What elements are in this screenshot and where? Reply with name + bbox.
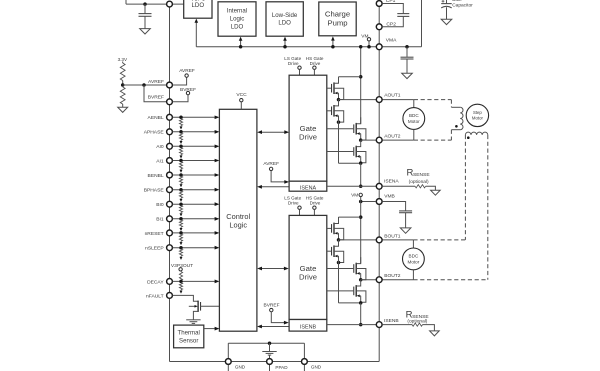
- junction: [283, 45, 287, 49]
- wire ISENB to control: [261, 326, 288, 328]
- wire supply arrow: [240, 40, 242, 47]
- pin BOUT2: [376, 277, 382, 283]
- svg-text:AI0: AI0: [156, 144, 164, 150]
- wire dashed AOUT1 to winding A: [414, 99, 452, 101]
- wire sense B: [360, 303, 362, 325]
- pulldown resistor APHASE: [179, 133, 182, 140]
- pulldown resistor BENBL: [179, 176, 182, 183]
- junction node BOUT2: [359, 278, 363, 282]
- wire LDO supply: [195, 22, 197, 47]
- resistor RSENSE A: [415, 185, 426, 188]
- winding A (stepper): [451, 106, 460, 108]
- pin BPHASE: [167, 187, 173, 193]
- wire input: [173, 232, 215, 234]
- svg-text:AVREF: AVREF: [179, 68, 195, 74]
- svg-text:BDC: BDC: [409, 113, 419, 118]
- svg-text:Internal: Internal: [227, 8, 247, 15]
- pin GND 2: [302, 359, 308, 365]
- svg-text:AVREF: AVREF: [148, 79, 164, 85]
- svg-text:VM: VM: [351, 192, 358, 198]
- motor BDC A: [413, 100, 415, 108]
- junction: [179, 202, 183, 206]
- svg-text:LDO: LDO: [192, 2, 205, 9]
- pulldown resistor AI0: [179, 148, 182, 155]
- junction: [359, 161, 363, 165]
- wire BVREF internal: [173, 95, 188, 102]
- block Control Logic: [219, 109, 257, 331]
- pin GND 1: [225, 359, 231, 365]
- svg-text:AOUT1: AOUT1: [384, 93, 401, 99]
- svg-text:Motor: Motor: [408, 259, 420, 264]
- junction: [359, 185, 363, 189]
- svg-text:BDC: BDC: [409, 254, 419, 259]
- svg-text:DECAY: DECAY: [147, 279, 164, 285]
- transistor Q6 (B low-side 1): [327, 250, 331, 252]
- junction: [359, 215, 363, 219]
- wire control-gatedriveB bus: [262, 268, 284, 270]
- svg-text:AENBL: AENBL: [148, 115, 164, 121]
- wire Q6 source down: [338, 256, 340, 303]
- junction: [179, 280, 183, 284]
- wire RSENSE B: [382, 324, 412, 326]
- pin BI0: [167, 201, 173, 207]
- junction: [359, 200, 363, 204]
- junction node BOUT1: [337, 238, 341, 242]
- chip outline bottom edge: [170, 361, 380, 363]
- ground: [441, 19, 452, 24]
- wire VM rail B: [360, 202, 362, 264]
- svg-text:AI1: AI1: [156, 158, 164, 164]
- junction: [268, 341, 272, 345]
- svg-text:Drive: Drive: [288, 201, 299, 206]
- chip outline right rail: [378, 4, 380, 362]
- wire GND1 stub: [227, 343, 229, 371]
- pin APHASE: [167, 129, 173, 135]
- pin BI1: [167, 216, 173, 222]
- chip outline left rail: [169, 4, 171, 361]
- block Charge Pump: [319, 2, 356, 36]
- block Thermal Sensor: [174, 325, 204, 348]
- ground earth symbol: [269, 343, 271, 351]
- label bulk capacitor: [442, 0, 445, 2]
- wire GND2 stub: [303, 343, 305, 371]
- wire dashed winding B right: [487, 135, 489, 280]
- ground: [186, 319, 200, 321]
- wire VMB internal: [361, 201, 376, 203]
- junction: [121, 83, 125, 87]
- wire sense A: [360, 163, 362, 186]
- wire FET1B drain feed: [339, 216, 361, 218]
- svg-text:BI1: BI1: [156, 217, 164, 223]
- svg-text:VMA: VMA: [386, 37, 397, 43]
- svg-text:Logic: Logic: [230, 16, 245, 23]
- wire AOUT2: [361, 139, 414, 141]
- resistor RSENSE B: [412, 323, 422, 326]
- wire dashed BOUT1: [413, 239, 465, 241]
- svg-text:Bulk: Bulk: [452, 0, 462, 3]
- svg-text:Capacitor: Capacitor: [452, 3, 473, 9]
- svg-text:ISENB: ISENB: [384, 318, 399, 324]
- wire dashed winding B left: [464, 135, 466, 240]
- svg-text:ISENA: ISENA: [384, 179, 399, 185]
- net HS gate drive B: [313, 206, 316, 209]
- svg-text:Drive: Drive: [288, 61, 299, 66]
- wire input: [173, 203, 215, 205]
- junction: [239, 45, 243, 49]
- capacitor VMB bypass: [399, 210, 412, 212]
- junction: [337, 120, 341, 124]
- pin AOUT1: [376, 97, 382, 103]
- pin PPAD: [267, 359, 273, 365]
- wire ground bus: [228, 342, 304, 344]
- junction: [179, 116, 183, 120]
- junction: [405, 45, 409, 49]
- pulldown resistor BI1: [179, 220, 182, 227]
- svg-text:nRESET: nRESET: [145, 231, 164, 237]
- pulldown resistor AENBL: [179, 119, 182, 126]
- block ISENB comparator: [289, 320, 327, 332]
- pin BOUT1: [376, 237, 382, 243]
- wire dashed winding A to AOUT2: [450, 130, 452, 140]
- net LS gate drive B: [298, 206, 301, 209]
- junction: [143, 2, 147, 6]
- resistor R1: [122, 62, 124, 64]
- svg-text:BVREF: BVREF: [148, 95, 164, 101]
- svg-text:VMB: VMB: [384, 193, 395, 199]
- pulldown resistor DECAY: [179, 283, 182, 290]
- wire thermal to control: [203, 328, 215, 330]
- junction: [179, 159, 183, 163]
- motor BDC B: [412, 240, 414, 248]
- junction: [331, 45, 335, 49]
- pin AI1: [167, 158, 173, 164]
- capacitor VMA bypass: [406, 47, 408, 57]
- wire input: [173, 145, 215, 147]
- wire AVREF internal: [173, 77, 187, 85]
- wire Q2 source down: [338, 116, 340, 164]
- transistor Q2 (A low-side 1): [327, 110, 331, 112]
- pulldown resistor nSLEEP: [179, 249, 182, 256]
- wire DECAY: [173, 280, 215, 282]
- svg-text:Motor: Motor: [408, 119, 420, 124]
- pin nSLEEP: [167, 245, 173, 251]
- svg-text:PPAD: PPAD: [275, 365, 288, 370]
- ground: [118, 107, 128, 112]
- svg-text:BI0: BI0: [156, 202, 164, 208]
- pin CP1: [376, 1, 382, 7]
- svg-text:Drive: Drive: [310, 201, 321, 206]
- junction: [179, 217, 183, 221]
- svg-text:nSLEEP: nSLEEP: [145, 246, 164, 252]
- wire RSENSE A: [382, 185, 415, 187]
- wire supply arrow: [284, 40, 286, 47]
- svg-text:3.3V: 3.3V: [118, 57, 128, 62]
- svg-text:Step: Step: [473, 110, 482, 115]
- wire ISENA to control: [261, 186, 289, 188]
- net BVREF: [186, 91, 189, 94]
- svg-text:Low-Side: Low-Side: [272, 12, 298, 19]
- capacitor bulk (cut at top): [446, 0, 448, 3]
- junction: [179, 130, 183, 134]
- transistor Q7 (B high-side 2): [327, 268, 353, 270]
- wire ISENA line: [327, 185, 376, 187]
- pin AI0: [167, 143, 173, 149]
- pin V3P3OUT: [167, 1, 173, 7]
- svg-text:Logic: Logic: [229, 220, 247, 229]
- ground: [140, 29, 151, 34]
- block Internal Logic LDO: [218, 2, 256, 36]
- transistor Q4 (A low-side 2): [327, 151, 353, 153]
- wire input: [173, 160, 215, 162]
- junction: [142, 83, 146, 87]
- svg-text:GND: GND: [235, 364, 246, 369]
- wire VM rail A: [360, 47, 362, 124]
- pin ISENB: [376, 322, 382, 328]
- svg-text:(optional): (optional): [407, 319, 427, 325]
- svg-text:LDO: LDO: [278, 19, 291, 26]
- transistor Q3 (A high-side 2): [327, 128, 353, 130]
- wire VM bus up right: [421, 0, 423, 47]
- wire divider to BVREF: [144, 85, 166, 102]
- svg-text:AOUT2: AOUT2: [384, 133, 401, 139]
- ground: [400, 228, 411, 233]
- pin AENBL: [167, 114, 173, 120]
- junction: [337, 261, 341, 265]
- svg-text:BPHASE: BPHASE: [144, 188, 165, 194]
- junction: [359, 323, 363, 327]
- pullup resistor DECAY: [179, 272, 182, 281]
- svg-text:Drive: Drive: [310, 61, 321, 66]
- svg-text:BOUT2: BOUT2: [384, 273, 401, 279]
- svg-text:GND: GND: [311, 364, 322, 369]
- wire input: [173, 116, 215, 118]
- pin AOUT2: [376, 137, 382, 143]
- pin BENBL: [167, 172, 173, 178]
- svg-text:BVREF: BVREF: [264, 302, 280, 308]
- junction: [179, 246, 183, 250]
- wire PPAD stub: [269, 355, 271, 371]
- transistor Q-nFAULT open drain: [197, 301, 199, 312]
- junction: [359, 75, 363, 79]
- wire input: [173, 174, 215, 176]
- svg-text:Motor: Motor: [472, 116, 484, 121]
- pin ISENA: [376, 183, 382, 189]
- wire input: [173, 218, 215, 220]
- wire dashed BOUT2: [413, 279, 487, 281]
- junction: [179, 231, 183, 235]
- wire supply arrow: [332, 40, 334, 47]
- ground: [431, 190, 441, 195]
- svg-text:BENBL: BENBL: [148, 173, 164, 179]
- svg-text:Charge: Charge: [325, 9, 350, 18]
- pulldown resistor BPHASE: [179, 191, 182, 198]
- wire V3P3OUT to top: [125, 0, 127, 4]
- net AVREF: [185, 74, 188, 77]
- wire FET1 drain feed: [339, 76, 361, 78]
- junction: [359, 301, 363, 305]
- wire BOUT2: [361, 279, 414, 281]
- svg-text:Sensor: Sensor: [179, 337, 198, 344]
- pulldown resistor AI1: [179, 162, 182, 169]
- capacitor flying CP: [382, 4, 403, 14]
- svg-text:Drive: Drive: [299, 132, 317, 141]
- svg-text:ISENA: ISENA: [300, 185, 317, 191]
- pin nFAULT: [167, 293, 173, 299]
- svg-text:VCC: VCC: [236, 92, 247, 98]
- pulldown resistor nRESET: [179, 234, 182, 241]
- transistor Q8 (B low-side 2): [327, 290, 353, 292]
- wire AOUT1: [339, 99, 414, 101]
- motor Step: [466, 104, 488, 126]
- pulldown resistor BI0: [179, 206, 182, 213]
- svg-text:nFAULT: nFAULT: [146, 293, 164, 299]
- ground: [402, 73, 413, 78]
- svg-text:LDO: LDO: [231, 23, 244, 30]
- svg-text:APHASE: APHASE: [144, 130, 165, 136]
- svg-text:(optional): (optional): [409, 179, 429, 185]
- wire input: [173, 247, 215, 249]
- wire control-gatedriveA bus: [262, 131, 285, 133]
- pin AVREF: [167, 82, 173, 88]
- junction: [359, 45, 363, 49]
- block Gate Drive B: [289, 215, 327, 319]
- block Gate Drive A: [289, 75, 327, 181]
- wire input: [173, 189, 215, 191]
- svg-text:AVREF: AVREF: [263, 161, 279, 167]
- svg-text:SENSE: SENSE: [413, 172, 430, 178]
- pin BVREF: [167, 99, 173, 105]
- block Low-Side LDO: [266, 2, 303, 36]
- capacitor C-V3P3OUT: [144, 4, 146, 13]
- junction node AOUT2: [359, 138, 363, 142]
- winding B (stepper): [465, 132, 487, 135]
- pin CP2: [376, 24, 382, 30]
- resistor R2: [120, 87, 125, 104]
- svg-text:Pump: Pump: [327, 18, 347, 27]
- block ISENA comparator: [289, 181, 327, 191]
- net HS gate drive A: [313, 66, 316, 69]
- wire ISENB line: [327, 324, 376, 326]
- pin DECAY: [167, 279, 173, 285]
- wire BOUT1: [339, 239, 414, 241]
- wire VMB to cap: [382, 202, 405, 211]
- pin nRESET: [167, 230, 173, 236]
- svg-text:BOUT1: BOUT1: [384, 233, 401, 239]
- wire divider to AVREF: [123, 84, 167, 86]
- wire input: [173, 131, 215, 133]
- svg-text:Drive: Drive: [299, 272, 317, 281]
- svg-text:ISENB: ISENB: [300, 325, 317, 331]
- transistor Q1 (A high-side 1): [327, 87, 331, 89]
- svg-text:Thermal: Thermal: [178, 329, 200, 336]
- pin VMA: [376, 44, 382, 50]
- winding B phase dot: [467, 136, 470, 139]
- junction: [179, 188, 183, 192]
- junction: [179, 173, 183, 177]
- winding A phase dot: [455, 125, 458, 128]
- pin VMB: [376, 199, 382, 205]
- wire nFAULT: [173, 295, 199, 301]
- wire VM bus: [196, 46, 421, 48]
- block V3P3 LDO: [184, 0, 212, 18]
- svg-text:BVREF: BVREF: [180, 87, 196, 93]
- transistor Q5 (B high-side 1): [327, 227, 331, 229]
- ground: [430, 331, 440, 336]
- net LS gate drive A: [298, 66, 301, 69]
- junction: [179, 145, 183, 149]
- junction node AOUT1: [337, 98, 341, 102]
